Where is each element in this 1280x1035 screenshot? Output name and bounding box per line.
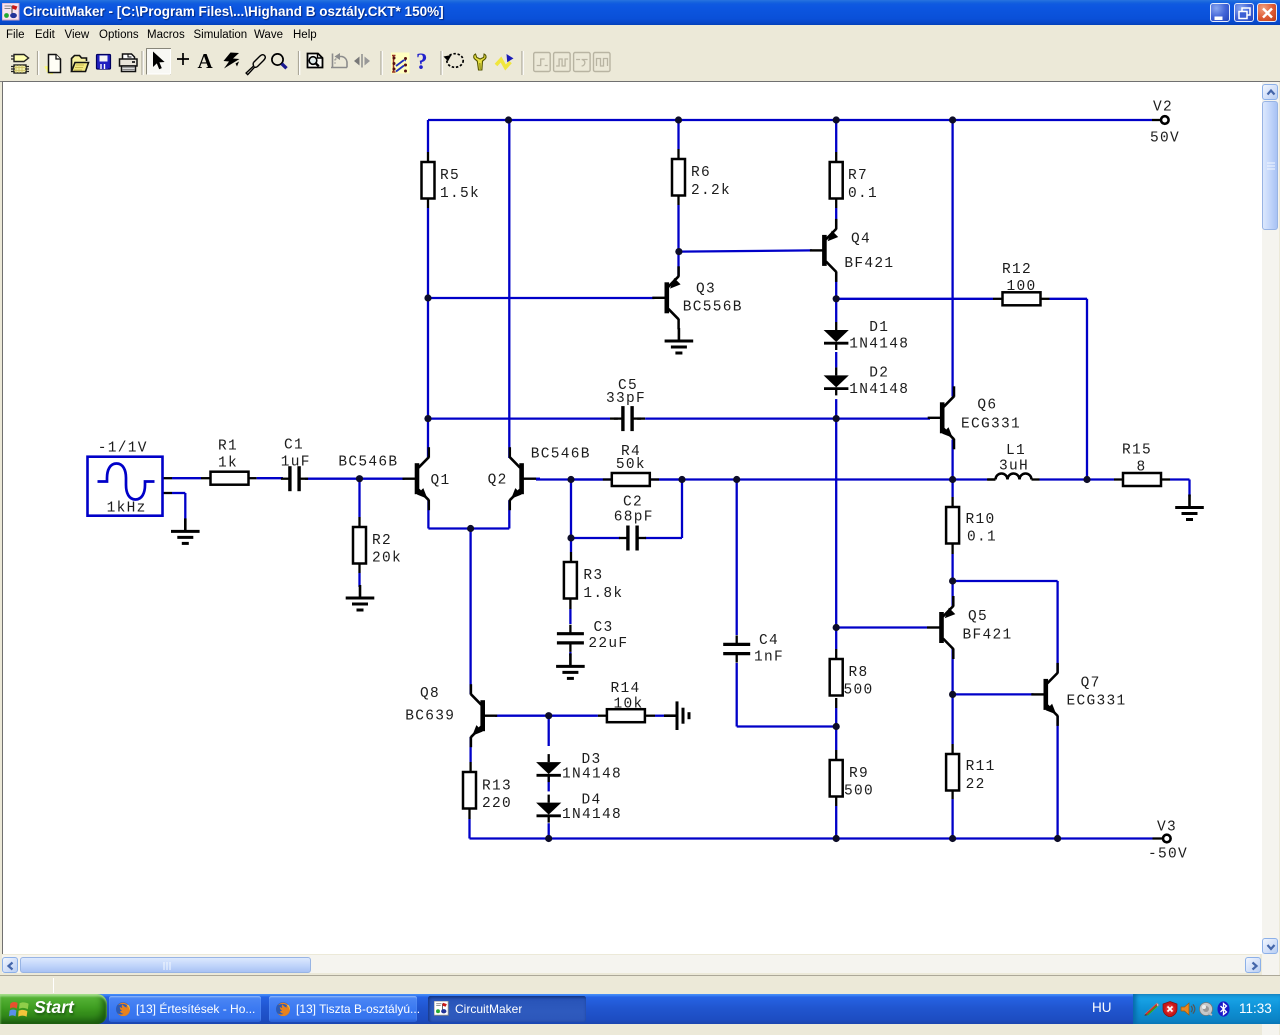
node R8 bottom / C4 return / R9 [833, 723, 840, 730]
resistor R10 [946, 507, 959, 544]
resistor R8 [830, 659, 843, 696]
wire: Q5 node down to R11 [951, 694, 953, 744]
wire: Q1/Q2 emitter rail [427, 500, 429, 528]
resistor R14 [607, 709, 645, 722]
node row / C4 [733, 476, 740, 483]
new doc [45, 68, 53, 73]
V2 terminal [1161, 116, 1169, 124]
node bottom rail / R9 [833, 835, 840, 842]
wire: Q7 emitter down to rail [1056, 716, 1058, 839]
wire: R1 to C1 [201, 477, 210, 479]
wire: Q5 collector node to Q7 base [953, 693, 1034, 695]
diode D3 [536, 762, 561, 774]
resistor R2 [353, 527, 366, 564]
wire: top V2 rail [428, 119, 1152, 121]
wire: C5 row [428, 417, 610, 419]
resistor R1 [211, 472, 249, 485]
open folder [72, 56, 87, 72]
disabled wave btn 1 [534, 53, 551, 72]
node C5 row / R5 column [424, 415, 431, 422]
svg-text:?: ? [416, 49, 428, 74]
wire: R14 row [549, 715, 598, 717]
menu bar [0, 25, 1280, 46]
wire: Q8 area [469, 737, 471, 762]
rotate 90 [331, 54, 347, 68]
wire: Q5 base wire [836, 626, 927, 628]
wire: C2 right column [645, 537, 682, 539]
wire: D column crossing main row down to Q5 base [835, 419, 837, 628]
wire: R10 node right to Q7 collector col [953, 580, 1058, 582]
taskbar [0, 994, 1280, 1024]
wire: C3 to ground [569, 652, 571, 656]
waveform probe [496, 60, 511, 68]
wire: Q5 emitter/collector column [951, 581, 953, 606]
node bottom rail / R11 [949, 835, 956, 842]
resistor R12 [1003, 292, 1041, 305]
node C2 left / R3 top [567, 534, 574, 541]
transistor Q3 [665, 282, 670, 313]
mirror [361, 54, 363, 68]
ground (R2) [359, 585, 362, 597]
window title bar [0, 0, 1280, 25]
wire: R6 column [677, 120, 679, 149]
print [123, 54, 135, 59]
resistor R7 [830, 162, 843, 199]
resistor R5 [422, 162, 435, 199]
ground (R15) [1188, 495, 1191, 507]
diode D2 [824, 375, 849, 387]
find-in-doc [308, 54, 323, 68]
node D2 / Q6 base row [833, 415, 840, 422]
save [97, 55, 111, 70]
wire: C4 column [736, 480, 738, 636]
resistor R13 [463, 772, 476, 809]
wire: R8 to node [835, 698, 837, 708]
wire: R5 column [427, 120, 429, 152]
node output / R12 feedback / R15 [1083, 476, 1090, 483]
resistor R9 [830, 760, 843, 797]
transistor Q1 [415, 463, 420, 494]
wire: Q3 emitter node to Q4 base [679, 250, 812, 251]
transistor Q6 [940, 402, 945, 433]
disabled wave btn 3 [574, 53, 591, 72]
wire: R2 column [358, 479, 360, 517]
wire: R9 to bottom rail [835, 796, 837, 806]
wire: Q2 base to row [536, 478, 540, 480]
node Q4 collector / D1 / R12 [833, 295, 840, 302]
node C1 / R2 [356, 475, 363, 482]
node top rail / R6 [675, 116, 682, 123]
wire: D2 to node [835, 399, 837, 419]
zoom tool [272, 54, 283, 65]
node Q8 base / R14 / D3 [545, 712, 552, 719]
node top rail / Q2 collector [505, 116, 512, 123]
node top rail / R7 [833, 116, 840, 123]
node bottom rail / D4 [545, 835, 552, 842]
digital/analog icon [391, 53, 410, 74]
diode D1 [824, 330, 849, 342]
wire: source box outputs [163, 477, 173, 479]
wire: Q6 column [951, 120, 953, 397]
wire: Q2 collector column [508, 120, 510, 458]
node Q5 collector / Q7 base / R11 [949, 691, 956, 698]
transistor Q5 [939, 612, 944, 643]
transistor Q4 [822, 235, 827, 266]
probe tool [246, 55, 265, 75]
node Q3 emitter / Q4 base [675, 248, 682, 255]
wire: L1 right to R15 [1040, 478, 1115, 480]
reset [447, 54, 463, 68]
wire: R3 column [570, 538, 572, 552]
wire: R15 right to gnd [1161, 478, 1170, 480]
ground (Q3) [678, 328, 681, 340]
transistor Q8 [480, 700, 485, 731]
capacitor C5 [621, 406, 624, 431]
wire: bottom rail [470, 837, 1153, 839]
node emitter rail / Q8 collector [467, 525, 474, 532]
transistor Q7 [1044, 679, 1049, 710]
arrow tool (selected) [147, 49, 171, 75]
wire: Q8 base to node [495, 715, 549, 717]
ground (source) [184, 518, 187, 530]
node output / Q6 emitter / R10 [949, 476, 956, 483]
inductor L1 [996, 474, 1032, 480]
node R10 bottom / Q5 emitter / Q7 collector wire [949, 577, 956, 584]
wire: R4 leads [571, 478, 603, 480]
disabled wave btn 2 [554, 53, 571, 72]
ground (C3) [569, 653, 572, 665]
V3 terminal [1163, 835, 1171, 843]
diode D4 [536, 803, 561, 815]
capacitor C1 [288, 466, 291, 491]
wire: Q6 emitter node down R10 [951, 440, 953, 498]
lightning [224, 53, 240, 69]
wire: main output row [536, 478, 953, 480]
resistor R11 [946, 754, 959, 791]
wire: tail down to Q8 collector [469, 529, 471, 695]
transistor Q2 [519, 463, 524, 494]
capacitor C3 [557, 632, 584, 635]
resistor R6 [672, 159, 685, 196]
wire: V2 stub [1152, 119, 1161, 121]
wire: R12 row [836, 298, 993, 300]
capacitor C4 [723, 643, 750, 646]
wire: C2 left column [570, 480, 572, 539]
wire: D3-D4 column [548, 776, 550, 791]
plus [177, 53, 189, 65]
signal source V1 box [88, 457, 163, 516]
svg-text:A: A [198, 49, 214, 73]
chip browser icon [14, 55, 29, 62]
disabled wave btn 4 [594, 53, 611, 72]
wire: R13 to rail corner [468, 809, 470, 819]
node Q3 base / R5 column [424, 294, 431, 301]
toolbar [0, 46, 1280, 80]
wire: feedback column down to output [1086, 299, 1088, 480]
resistor R15 [1123, 473, 1161, 486]
wire: C1 to Q1 base [305, 478, 405, 480]
wire: Q5 base node down to R8 [835, 628, 837, 650]
capacitor C2 [626, 526, 629, 551]
node Q5 base / D column [833, 624, 840, 631]
wire: V3 stub [1153, 837, 1163, 839]
wrench [474, 54, 486, 70]
wire: Q3 base wire [428, 297, 655, 299]
resistor R3 [564, 562, 577, 599]
status bar [0, 975, 1280, 994]
resistor R4 [612, 473, 650, 486]
ground (R14, rotated) [664, 714, 676, 717]
wire: Q4 collector to D1 node [835, 272, 837, 322]
wire: R7 column / Q4 [835, 120, 837, 152]
node row / C2 right [678, 476, 685, 483]
node bottom rail / Q7 emitter [1054, 835, 1061, 842]
node row / C2 left / R3 [567, 476, 574, 483]
wire: D1-D2 [835, 352, 837, 367]
node top rail / Q6 collector column [949, 116, 956, 123]
